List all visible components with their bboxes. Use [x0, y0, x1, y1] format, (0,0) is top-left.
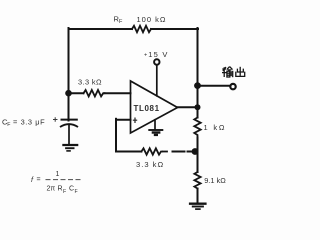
svg-text:1: 1: [56, 171, 60, 178]
svg-text:f: f: [31, 175, 34, 184]
svg-text:R: R: [58, 186, 63, 193]
svg-text:= 3.3 μF: = 3.3 μF: [13, 118, 45, 127]
svg-text:+: +: [144, 53, 147, 59]
svg-text:15 V: 15 V: [148, 50, 168, 59]
svg-text:F: F: [119, 19, 123, 25]
svg-text:9.1 kΩ: 9.1 kΩ: [204, 176, 226, 185]
svg-text:100 kΩ: 100 kΩ: [137, 15, 167, 24]
svg-text:1 kΩ: 1 kΩ: [204, 123, 227, 132]
svg-text:F: F: [7, 122, 10, 128]
svg-text:C: C: [69, 186, 74, 193]
svg-text:TL081: TL081: [134, 104, 160, 113]
svg-text:3.3 kΩ: 3.3 kΩ: [78, 77, 102, 86]
svg-text:2π: 2π: [47, 186, 56, 193]
svg-text:F: F: [63, 189, 66, 195]
svg-text:3.3 kΩ: 3.3 kΩ: [136, 160, 164, 169]
svg-text:=: =: [37, 177, 41, 184]
svg-text:F: F: [75, 189, 78, 195]
